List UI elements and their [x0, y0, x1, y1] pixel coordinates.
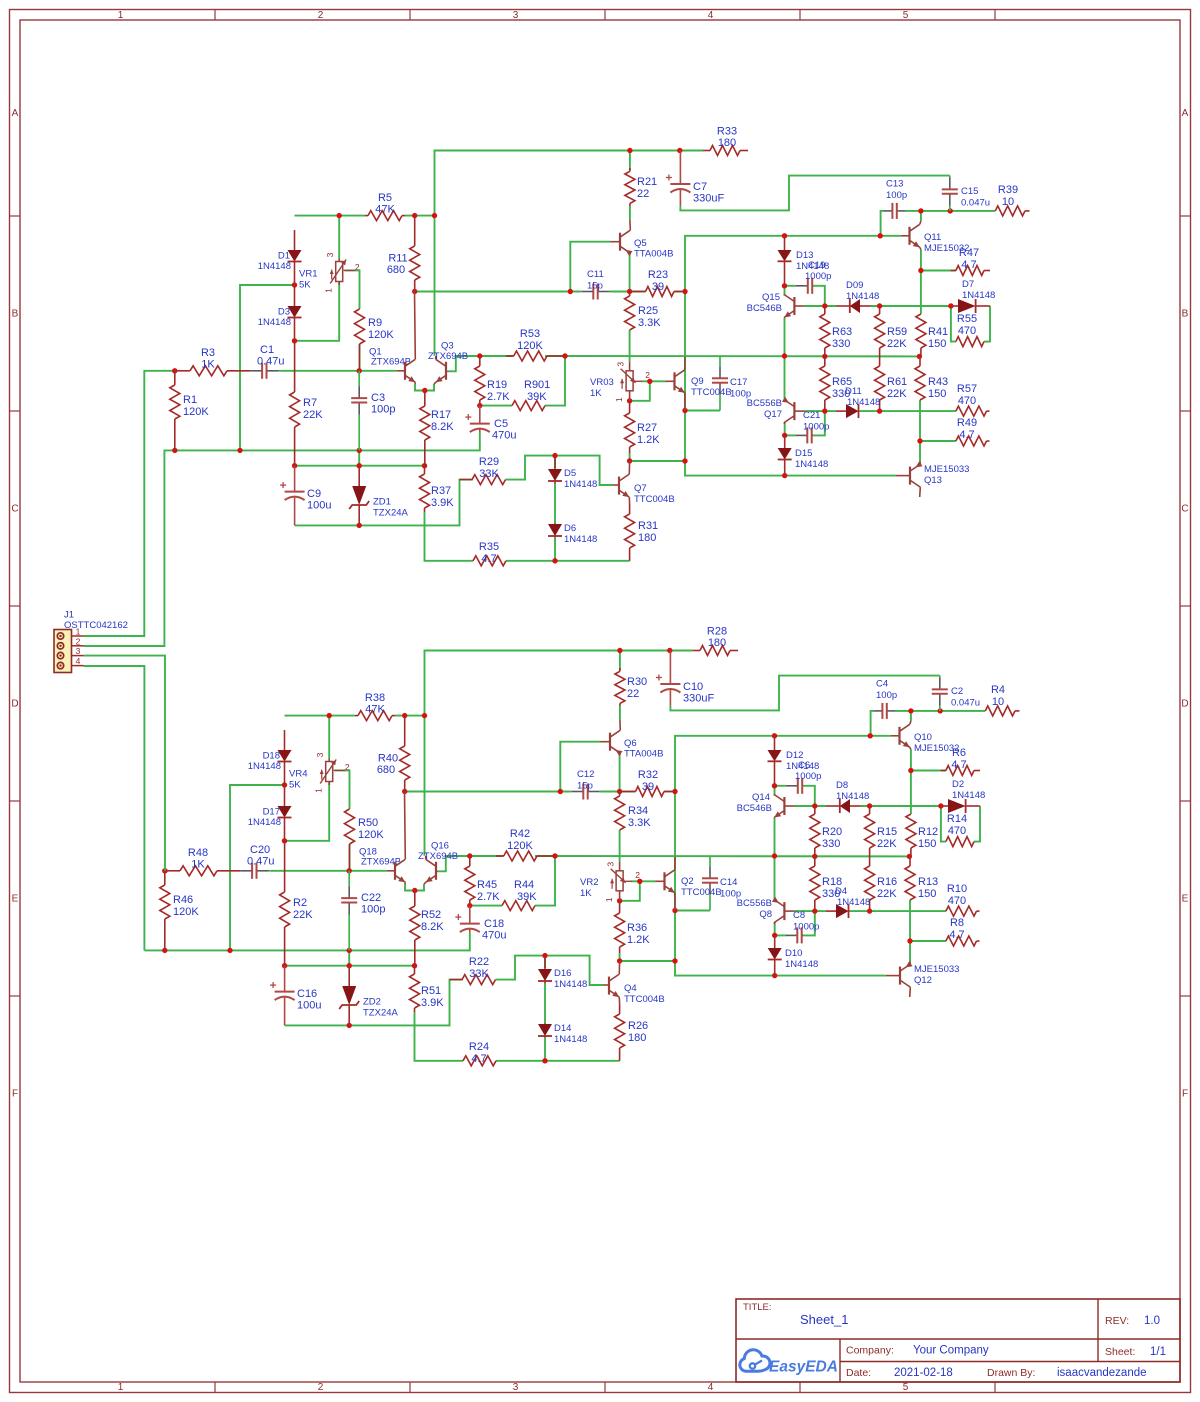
svg-text:R22: R22 [469, 956, 489, 968]
svg-text:1N4148: 1N4148 [785, 959, 818, 970]
resistor R19 [475, 356, 510, 406]
svg-text:ZD1: ZD1 [373, 497, 391, 508]
junction [782, 233, 787, 238]
wire [941, 806, 946, 842]
junction [337, 213, 342, 218]
capacitor C1 [250, 344, 285, 379]
capacitor C15 [942, 176, 990, 211]
svg-text:330: 330 [822, 838, 840, 850]
wire [850, 910, 870, 912]
resistor R48 [165, 847, 240, 876]
wire [825, 410, 836, 412]
junction [412, 289, 417, 294]
svg-text:5K: 5K [299, 280, 311, 291]
transistor Q8 [737, 897, 795, 924]
resistor R24 [463, 1041, 496, 1066]
wire [795, 910, 815, 912]
wire [295, 215, 366, 217]
diode D18 [248, 730, 292, 785]
svg-text:R39: R39 [998, 184, 1018, 196]
svg-text:R59: R59 [887, 326, 907, 338]
resistor R49 [956, 417, 990, 446]
resistor R14 [946, 813, 974, 847]
resistor R44 [502, 879, 537, 911]
svg-text:TTA004B: TTA004B [624, 749, 663, 760]
capacitor C6 [786, 760, 822, 794]
junction [868, 733, 873, 738]
capacitor C4 [874, 679, 897, 719]
svg-text:0.047u: 0.047u [951, 698, 980, 709]
junction [667, 648, 672, 653]
svg-text:2021-02-18: 2021-02-18 [894, 1367, 953, 1379]
wire [920, 211, 922, 221]
resistor R34 [615, 792, 652, 831]
svg-text:C8: C8 [793, 910, 805, 921]
junction [237, 448, 242, 453]
svg-text:2: 2 [635, 870, 640, 880]
svg-text:R2: R2 [293, 897, 307, 909]
svg-text:E: E [1182, 894, 1189, 905]
svg-text:R45: R45 [477, 879, 497, 891]
junction [812, 803, 817, 808]
svg-text:R14: R14 [947, 813, 967, 825]
wire [619, 706, 621, 720]
junction [422, 713, 427, 718]
svg-text:3.3K: 3.3K [628, 817, 651, 829]
svg-text:R10: R10 [947, 883, 967, 895]
svg-text:E: E [12, 894, 19, 905]
wire [909, 941, 911, 962]
wire [506, 560, 630, 562]
svg-text:OSTTC042162: OSTTC042162 [64, 620, 128, 631]
wire [785, 285, 796, 287]
wire [920, 271, 922, 315]
wire [425, 651, 694, 856]
svg-text:1/1: 1/1 [1150, 1346, 1166, 1358]
wire [545, 356, 565, 406]
junction [617, 789, 622, 794]
resistor R51 [410, 966, 445, 1012]
svg-text:1: 1 [118, 10, 124, 21]
svg-text:D4: D4 [835, 886, 847, 897]
svg-text:15p: 15p [587, 281, 603, 292]
svg-text:1K: 1K [590, 388, 602, 399]
svg-text:J1: J1 [64, 610, 74, 621]
svg-text:R901: R901 [524, 379, 550, 391]
resistor R17 [420, 391, 454, 466]
svg-text:C17: C17 [730, 377, 747, 388]
transistor Q13 [896, 461, 970, 497]
capacitor C5 [465, 406, 516, 442]
svg-text:150: 150 [928, 388, 946, 400]
junction [822, 303, 827, 308]
resistor R29 [460, 456, 506, 485]
svg-text:1.2K: 1.2K [627, 934, 650, 946]
svg-text:1000p: 1000p [803, 422, 829, 433]
wire [795, 805, 827, 807]
junction [878, 233, 883, 238]
transistor Q18 [387, 792, 406, 885]
wire [345, 270, 360, 308]
wire [240, 285, 295, 450]
svg-text:180: 180 [718, 137, 736, 149]
capacitor C10 [656, 651, 715, 706]
capacitor C18 [455, 906, 506, 942]
resistor R7 [290, 341, 324, 466]
wire [785, 434, 796, 436]
svg-text:5K: 5K [289, 780, 301, 791]
wire [281, 370, 397, 372]
svg-text:2: 2 [318, 10, 324, 21]
resistor R63 [820, 306, 852, 356]
diode D13 [778, 236, 830, 286]
junction [562, 353, 567, 358]
capacitor C14 [702, 856, 741, 911]
svg-text:1000p: 1000p [793, 922, 819, 933]
svg-text:5: 5 [903, 10, 909, 21]
svg-text:Sheet:: Sheet: [1105, 1346, 1135, 1358]
junction [347, 963, 352, 968]
junction [542, 1058, 547, 1063]
resistor R18 [810, 856, 842, 911]
svg-text:C15: C15 [961, 186, 978, 197]
junction [422, 463, 427, 468]
svg-text:D1: D1 [278, 251, 290, 262]
junction [908, 768, 913, 773]
svg-text:MJE15032: MJE15032 [914, 743, 959, 754]
svg-text:R19: R19 [487, 379, 507, 391]
diode D09 [836, 280, 879, 313]
svg-text:Q2: Q2 [681, 876, 694, 887]
svg-text:Q9: Q9 [691, 376, 704, 387]
transistor Q4 [604, 961, 665, 1005]
svg-text:MJE15032: MJE15032 [924, 243, 969, 254]
wire [674, 291, 685, 293]
wire [349, 844, 351, 871]
junction [402, 713, 407, 718]
junction [617, 898, 622, 903]
junction [938, 708, 943, 713]
zener diode ZD2 [339, 966, 398, 1026]
wire [805, 305, 837, 307]
junction [227, 948, 232, 953]
wire [230, 785, 285, 950]
junction [162, 948, 167, 953]
svg-text:R32: R32 [638, 769, 658, 781]
diode D16 [538, 956, 587, 990]
wire [620, 881, 656, 901]
junction [477, 403, 482, 408]
svg-text:C19: C19 [808, 260, 825, 271]
svg-text:C6: C6 [798, 760, 810, 771]
junction [412, 213, 417, 218]
wire [619, 754, 621, 792]
junction [292, 282, 297, 287]
capacitor C16 [270, 966, 321, 1026]
wire [784, 318, 786, 401]
svg-text:R50: R50 [358, 817, 378, 829]
svg-text:MJE15033: MJE15033 [914, 964, 959, 975]
svg-text:3: 3 [616, 362, 626, 367]
resistor R30 [615, 668, 647, 706]
wire [685, 236, 901, 476]
junction [552, 558, 557, 563]
svg-text:Q15: Q15 [762, 292, 780, 303]
junction [162, 868, 167, 873]
svg-text:D09: D09 [846, 280, 863, 291]
svg-text:EasyEDA: EasyEDA [769, 1359, 838, 1376]
resistor R6 [941, 747, 980, 776]
transistor Q3 [428, 341, 468, 385]
svg-text:R40: R40 [378, 753, 398, 765]
svg-text:0.047u: 0.047u [961, 198, 990, 209]
svg-text:R36: R36 [627, 922, 647, 934]
resistor R23 [630, 269, 685, 297]
svg-text:1: 1 [314, 788, 324, 793]
svg-text:C10: C10 [683, 681, 703, 693]
wire [974, 806, 980, 842]
svg-text:D5: D5 [564, 468, 576, 479]
svg-text:1: 1 [614, 397, 624, 402]
wire [629, 151, 631, 171]
svg-text:1K: 1K [191, 859, 205, 871]
junction [357, 523, 362, 528]
diode D12 [768, 736, 820, 786]
svg-text:BC556B: BC556B [737, 898, 772, 909]
svg-text:MJE15033: MJE15033 [924, 464, 969, 475]
svg-text:R28: R28 [707, 626, 727, 638]
capacitor C7 [666, 151, 725, 206]
capacitor C17 [712, 356, 751, 411]
transistor Q1 [397, 292, 416, 385]
svg-text:TTA004B: TTA004B [634, 249, 673, 260]
junction [908, 708, 913, 713]
wire [775, 934, 786, 936]
wire [774, 922, 776, 935]
resistor R28 [693, 626, 738, 656]
wire [805, 410, 825, 412]
wire [545, 355, 919, 357]
svg-text:VR4: VR4 [289, 769, 307, 780]
svg-text:R52: R52 [421, 909, 441, 921]
svg-text:D18: D18 [263, 751, 280, 762]
svg-text:4: 4 [76, 656, 81, 666]
resistor R39 [995, 184, 1029, 216]
capacitor C12 [570, 769, 600, 800]
svg-text:33K: 33K [479, 468, 499, 480]
svg-text:D16: D16 [554, 968, 571, 979]
capacitor C2 [932, 676, 980, 711]
svg-text:C18: C18 [484, 918, 504, 930]
resistor R41 [916, 314, 948, 356]
wire [480, 405, 512, 407]
wire [685, 410, 720, 412]
potentiometer VR4 [289, 752, 350, 793]
svg-text:R5: R5 [378, 192, 392, 204]
resistor R57 [956, 383, 990, 416]
junction [682, 458, 687, 463]
junction [782, 353, 787, 358]
svg-text:470: 470 [958, 325, 976, 337]
junction [172, 448, 177, 453]
svg-text:Sheet_1: Sheet_1 [800, 1312, 848, 1327]
junction [672, 958, 677, 963]
svg-text:D8: D8 [836, 780, 848, 791]
wire [881, 211, 884, 236]
svg-text:100p: 100p [876, 690, 897, 701]
wire [544, 984, 546, 1024]
EasyEDA logo [740, 1350, 838, 1376]
svg-text:330uF: 330uF [693, 193, 724, 205]
transistor Q14 [737, 792, 795, 818]
wire [295, 282, 340, 341]
resistor R20 [810, 806, 842, 856]
svg-text:TTC004B: TTC004B [681, 887, 722, 898]
svg-text:C12: C12 [577, 769, 594, 780]
svg-text:180: 180 [638, 532, 656, 544]
junction [292, 338, 297, 343]
svg-text:C1: C1 [260, 344, 274, 356]
svg-text:R41: R41 [928, 326, 948, 338]
svg-text:3: 3 [325, 252, 335, 257]
resistor R42 [496, 828, 555, 861]
junction [282, 782, 287, 787]
svg-text:R53: R53 [520, 328, 540, 340]
svg-text:R31: R31 [638, 520, 658, 532]
svg-text:Q17: Q17 [764, 409, 782, 420]
svg-text:C16: C16 [297, 988, 317, 1000]
transistor Q16 [418, 841, 458, 885]
junction [867, 908, 872, 913]
svg-text:D11: D11 [845, 386, 862, 397]
resistor R61 [875, 356, 908, 411]
svg-text:150: 150 [918, 838, 936, 850]
svg-text:Q4: Q4 [624, 983, 637, 994]
wire [405, 791, 570, 793]
svg-text:3: 3 [513, 10, 519, 21]
svg-text:BC546B: BC546B [747, 303, 782, 314]
junction [812, 908, 817, 913]
wire [535, 856, 555, 906]
resistor R31 [625, 504, 659, 561]
wire [144, 933, 469, 951]
svg-text:Q10: Q10 [914, 732, 932, 743]
resistor R8 [946, 917, 980, 946]
wire [560, 742, 600, 792]
svg-text:R61: R61 [887, 376, 907, 388]
resistor R50 [345, 809, 402, 871]
diode D7 [951, 279, 995, 313]
transistor Q12 [886, 961, 960, 997]
diode D8 [826, 780, 869, 813]
transistor Q15 [747, 292, 805, 318]
junction [877, 408, 882, 413]
wire [438, 856, 470, 871]
svg-text:4.7: 4.7 [949, 929, 964, 941]
svg-text:1.2K: 1.2K [637, 434, 660, 446]
junction [918, 268, 923, 273]
svg-text:8.2K: 8.2K [421, 921, 444, 933]
svg-text:C5: C5 [494, 418, 508, 430]
wire [554, 456, 556, 468]
svg-text:1: 1 [324, 288, 334, 293]
svg-text:C4: C4 [876, 679, 888, 690]
wire [335, 770, 350, 808]
wire [921, 270, 956, 272]
wire [506, 456, 614, 485]
svg-text:R17: R17 [431, 409, 451, 421]
junction [282, 963, 287, 968]
svg-text:4: 4 [708, 1382, 714, 1393]
svg-text:R7: R7 [303, 397, 317, 409]
resistor R26 [615, 1004, 649, 1061]
svg-text:1K: 1K [580, 888, 592, 899]
resistor R43 [915, 356, 948, 400]
svg-text:D10: D10 [785, 948, 802, 959]
svg-text:C9: C9 [307, 488, 321, 500]
wire [544, 1038, 546, 1061]
junction [412, 963, 417, 968]
svg-text:180: 180 [708, 637, 726, 649]
junction [917, 354, 922, 359]
svg-text:1N4148: 1N4148 [846, 291, 879, 302]
svg-text:Q16: Q16 [431, 841, 449, 852]
wire [910, 711, 912, 721]
svg-text:D17: D17 [263, 807, 280, 818]
svg-text:3: 3 [76, 646, 81, 656]
wire [84, 656, 166, 871]
diode D1 [258, 230, 302, 285]
svg-text:1N4148: 1N4148 [248, 761, 281, 772]
junction [558, 789, 563, 794]
wire [295, 465, 425, 467]
svg-text:R27: R27 [637, 422, 657, 434]
wire [670, 676, 939, 711]
potentiometer VR03 [590, 362, 650, 403]
svg-text:R29: R29 [479, 456, 499, 468]
junction [672, 908, 677, 913]
wire [570, 242, 610, 292]
diode D6 [548, 523, 597, 545]
wire [480, 355, 514, 357]
svg-text:R25: R25 [638, 305, 658, 317]
resistor R2 [280, 841, 314, 966]
svg-text:R21: R21 [637, 176, 657, 188]
junction [627, 458, 632, 463]
junction [822, 408, 827, 413]
capacitor C19 [796, 260, 832, 294]
diode D15 [778, 435, 829, 475]
svg-text:1N4148: 1N4148 [795, 459, 828, 470]
svg-text:B: B [12, 309, 19, 320]
svg-text:5: 5 [903, 1382, 909, 1393]
svg-text:R51: R51 [421, 985, 441, 997]
resistor R47 [951, 247, 990, 276]
svg-text:C3: C3 [371, 392, 385, 404]
junction [647, 379, 652, 384]
svg-text:VR03: VR03 [590, 377, 614, 388]
svg-text:ZTX694B: ZTX694B [418, 851, 458, 862]
svg-text:A: A [12, 108, 19, 119]
svg-text:R48: R48 [188, 847, 208, 859]
junction [948, 303, 953, 308]
resistor R37 [420, 466, 455, 512]
wire [84, 666, 145, 950]
junction [948, 208, 953, 213]
junction [822, 354, 827, 359]
resistor R901 [512, 379, 550, 411]
svg-text:R9: R9 [368, 317, 382, 329]
